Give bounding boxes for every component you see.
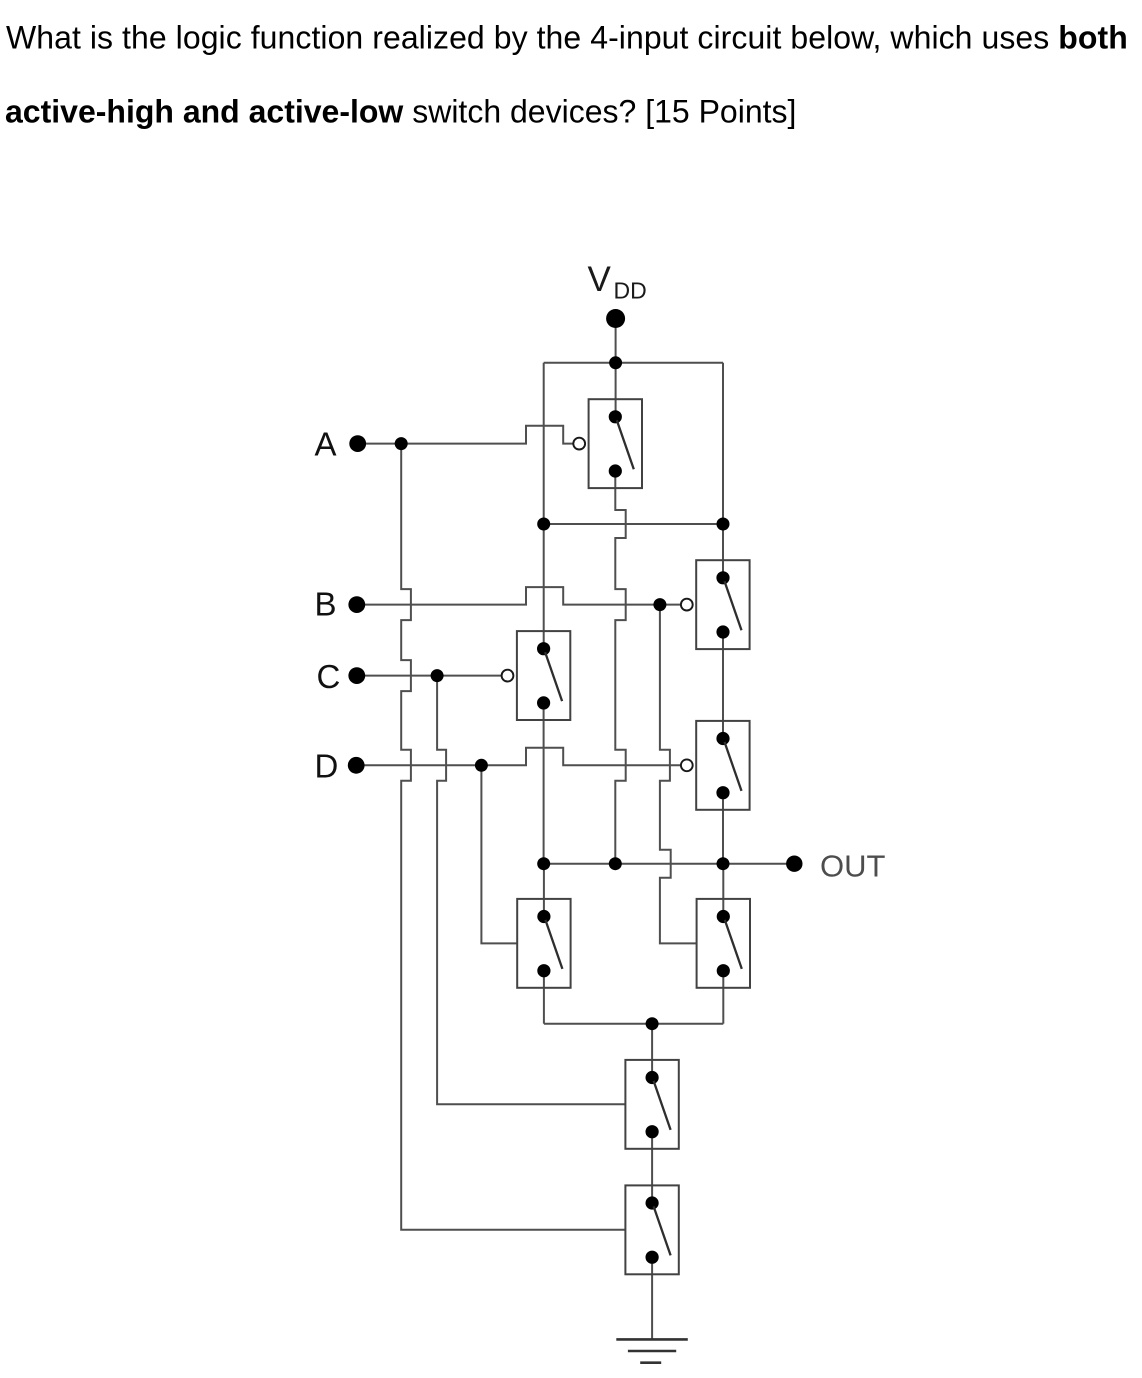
wire: S7 to S8 <box>651 1132 653 1203</box>
wire: D input row with hop over left rail <box>356 748 681 766</box>
wire: bottom join row <box>544 1023 723 1025</box>
svg-text:A: A <box>315 425 337 462</box>
bubble S1 <box>573 438 585 450</box>
wire: S5 output down <box>543 971 545 1024</box>
node: A junction <box>395 437 408 450</box>
bubble S3 <box>502 670 514 682</box>
switch S6 (B, active-high) <box>697 899 750 988</box>
wire: S3 output down to OUT row <box>543 703 545 864</box>
node: OUT row right <box>717 857 730 870</box>
wire: S6 output down <box>722 971 724 1024</box>
wire: S4 output to OUT row <box>722 793 724 864</box>
input terminal D <box>348 757 365 774</box>
wire: C column down to S7 control <box>437 676 625 1105</box>
bubble S4 <box>681 759 693 771</box>
wire: top rail <box>544 362 723 364</box>
wire: A input row with hop over left rail <box>358 426 574 444</box>
wire: B input row with hop over left rail <box>357 587 681 605</box>
switch S2 (B, active-low) <box>696 560 749 649</box>
node: bottom join <box>646 1017 659 1030</box>
node: second rail left <box>537 518 550 531</box>
svg-text:V: V <box>588 260 612 299</box>
input terminal B <box>348 596 365 613</box>
wire: second rail <box>544 523 723 525</box>
ground <box>616 1339 688 1362</box>
node: OUT row middle <box>609 857 622 870</box>
node: C junction <box>431 669 444 682</box>
switch S4 (D, active-low) <box>696 721 749 810</box>
wire: OUT row to S5 <box>543 864 545 917</box>
wire: right rail (to S2) <box>722 363 724 578</box>
wire: left rail upper (to S3) <box>543 363 545 649</box>
svg-text:What is the logic function rea: What is the logic function realized by t… <box>6 19 1128 55</box>
wire: S8 to ground <box>651 1257 653 1339</box>
OUT terminal <box>786 856 802 872</box>
input terminal C <box>348 667 365 684</box>
bubble S2 <box>681 599 693 611</box>
svg-text:B: B <box>315 586 337 623</box>
node: B junction <box>653 598 666 611</box>
wire: D column down to S5 control <box>481 765 517 943</box>
switch S7 (C, active-high) <box>625 1060 678 1149</box>
svg-text:DD: DD <box>614 278 647 304</box>
switch S1 (A, active-low, pull-up) <box>589 399 642 488</box>
wire: OUT row <box>544 863 795 865</box>
input terminal A <box>349 435 366 452</box>
wire: C input row to S3 bubble <box>357 675 502 677</box>
svg-text:D: D <box>315 748 339 785</box>
svg-text:OUT: OUT <box>820 849 886 884</box>
svg-text:C: C <box>317 658 341 695</box>
VDD terminal <box>606 309 625 328</box>
wire: B column down to S6 control <box>660 605 697 944</box>
node: VDD rail junction <box>609 356 622 369</box>
switch S8 (A, active-high) <box>625 1185 678 1274</box>
switch S3 (C, active-low) <box>517 631 570 720</box>
wire: join to S7 <box>651 1024 653 1078</box>
switch S5 (D, active-high) <box>517 899 570 988</box>
wire: OUT row to S6 <box>722 864 724 917</box>
node: second rail right <box>717 518 730 531</box>
wire: A column down to S8 control <box>401 444 625 1230</box>
wire: S2 output to S4 <box>722 632 724 739</box>
wire: S1 output column with jogs <box>615 471 625 864</box>
svg-text:active-high and active-low swi: active-high and active-low switch device… <box>5 94 796 130</box>
node: OUT row left <box>537 857 550 870</box>
node: D junction <box>475 759 488 772</box>
wire: VDD stem <box>615 319 617 417</box>
